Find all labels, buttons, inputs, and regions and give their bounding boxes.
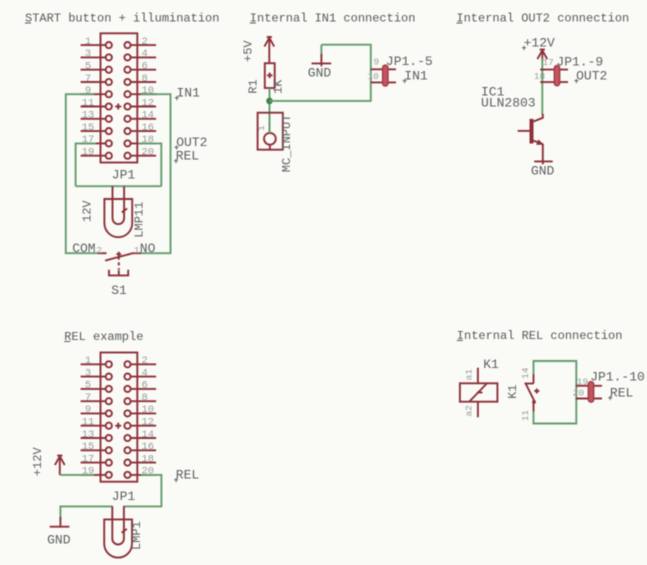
svg-text:9: 9: [373, 57, 379, 68]
wire: JP1 pin 20 (REL) to lamp LMP1: [123, 475, 161, 507]
connector JP1.-9 (pins 17,18): [540, 65, 568, 85]
svg-text:a2: a2: [464, 405, 475, 417]
relay contact K1: [525, 374, 540, 411]
svg-text:1: 1: [85, 355, 91, 367]
svg-text:ULN2803: ULN2803: [481, 95, 536, 110]
supply +12V arrow: [537, 50, 547, 61]
svg-text:14: 14: [520, 367, 531, 379]
svg-text:1: 1: [256, 125, 267, 131]
svg-text:20: 20: [573, 387, 585, 398]
svg-text:4: 4: [142, 367, 148, 379]
svg-text:IN1: IN1: [404, 69, 428, 84]
JP1 pin row 19-20: [81, 147, 157, 159]
svg-text:START button + illumination: START button + illumination: [25, 12, 219, 26]
svg-text:17: 17: [542, 57, 553, 68]
svg-text:16: 16: [142, 441, 155, 453]
svg-text:18: 18: [534, 71, 546, 82]
svg-text:IN1: IN1: [177, 86, 201, 101]
JP1 pin row 1-2: [81, 36, 157, 48]
ground GND (OUT2 section): [534, 161, 553, 164]
svg-text:R1: R1: [246, 79, 260, 93]
svg-text:3: 3: [85, 367, 91, 379]
JP1 (REL example) pin row 11-12: [81, 417, 157, 429]
svg-text:JP1: JP1: [112, 489, 136, 504]
svg-text:1K: 1K: [271, 79, 285, 94]
resistor R1: [265, 63, 275, 88]
junction: [266, 98, 273, 105]
svg-text:Internal OUT2 connection: Internal OUT2 connection: [456, 12, 629, 26]
svg-text:20: 20: [142, 147, 155, 159]
transistor Q1 (ULN2803 driver): [518, 114, 543, 161]
svg-text:14: 14: [142, 110, 155, 122]
wire: lamp top rail: [76, 185, 162, 187]
svg-text:4: 4: [142, 48, 148, 60]
svg-text:14: 14: [142, 429, 155, 441]
svg-text:15: 15: [82, 441, 95, 453]
svg-text:REL example: REL example: [64, 330, 143, 344]
svg-text:2: 2: [142, 355, 148, 367]
wire: +12V to transistor collector: [541, 58, 543, 115]
svg-text:JP1.-5: JP1.-5: [386, 54, 433, 69]
svg-text:6: 6: [142, 380, 148, 392]
svg-text:+5V: +5V: [241, 40, 255, 62]
JP1 (REL example) pin row 19-20: [81, 466, 157, 478]
svg-text:12: 12: [142, 97, 155, 109]
JP1 pin row 9-10: [81, 85, 157, 97]
svg-text:13: 13: [82, 429, 95, 441]
svg-text:9: 9: [85, 404, 91, 416]
JP1 pin row 3-4: [81, 48, 157, 60]
svg-text:11: 11: [82, 97, 95, 109]
svg-text:19: 19: [577, 377, 589, 388]
svg-text:13: 13: [82, 110, 95, 122]
relay coil K1: [460, 368, 498, 418]
svg-text:S1: S1: [111, 283, 127, 298]
connector JP1.-5 (pins 9,10): [371, 65, 396, 86]
wire: JP1 pin 10 (IN1) to S1 NO: [141, 94, 171, 253]
svg-text:NO: NO: [140, 241, 156, 256]
JP1 (REL example) polarity mark: [115, 423, 121, 429]
connector JP1.-10 (pins 19,20): [576, 382, 602, 403]
svg-text:10: 10: [367, 71, 379, 82]
svg-text:GND: GND: [308, 66, 332, 81]
svg-text:+12V: +12V: [31, 447, 45, 477]
svg-text:12V: 12V: [81, 200, 95, 222]
switch S1: [98, 252, 142, 276]
wire: JP1 pin 9 to S1 COM: [66, 94, 98, 253]
svg-text:15: 15: [82, 122, 95, 134]
svg-text:a1: a1: [464, 369, 475, 381]
wire: junction to JP1.-5: [270, 45, 371, 101]
svg-text:7: 7: [85, 392, 91, 404]
svg-text:REL: REL: [176, 149, 199, 164]
svg-text:Internal REL connection: Internal REL connection: [457, 329, 623, 343]
JP1 (REL example) pin row 15-16: [81, 441, 157, 453]
JP1 polarity mark: [115, 104, 121, 110]
svg-text:K1: K1: [483, 357, 499, 372]
svg-text:REL: REL: [610, 386, 633, 401]
svg-text:K1: K1: [506, 384, 520, 398]
svg-text:+12V: +12V: [524, 36, 555, 51]
svg-text:8: 8: [142, 392, 148, 404]
svg-text:GND: GND: [531, 163, 555, 178]
svg-text:18: 18: [142, 453, 155, 465]
svg-text:7: 7: [85, 73, 91, 85]
button MC_INPUT: [258, 113, 283, 150]
svg-text:19: 19: [82, 466, 95, 478]
JP1 pin row 13-14: [81, 110, 157, 122]
JP1 pin row 5-6: [81, 61, 157, 73]
supply +12V arrow (REL example): [55, 456, 65, 475]
JP1 (REL example) pin row 3-4: [81, 367, 157, 379]
svg-text:9: 9: [85, 85, 91, 97]
wire: JP1 pin 18 (OUT2) to lamp: [139, 143, 162, 186]
JP1 (REL example) pin row 17-18: [81, 453, 157, 465]
svg-text:8: 8: [142, 73, 148, 85]
svg-text:LMP11: LMP11: [133, 202, 147, 238]
svg-text:JP1.-9: JP1.-9: [556, 55, 603, 70]
JP1 pin row 15-16: [81, 122, 157, 134]
svg-text:11: 11: [82, 417, 95, 429]
JP1 (REL example) pin row 9-10: [81, 404, 157, 416]
svg-text:JP1: JP1: [112, 168, 136, 183]
wire: JP1 pin 17 to lamp: [76, 143, 96, 186]
svg-text:REL: REL: [176, 468, 199, 483]
svg-text:1: 1: [85, 36, 91, 48]
svg-text:18: 18: [142, 134, 155, 146]
lamp LMP11: [104, 199, 132, 238]
JP1 pin row 17-18: [81, 134, 157, 146]
svg-text:20: 20: [142, 466, 155, 478]
svg-text:10: 10: [142, 404, 155, 416]
wire: GND rail to lamp LMP1: [60, 506, 112, 519]
JP1 pin row 11-12: [81, 97, 157, 109]
svg-text:11: 11: [520, 410, 531, 422]
svg-text:MC_INPUT: MC_INPUT: [280, 115, 294, 173]
svg-text:6: 6: [142, 61, 148, 73]
lamp LMP11 pins: [113, 186, 125, 199]
svg-text:2: 2: [142, 36, 148, 48]
svg-text:17: 17: [82, 134, 95, 146]
connector JP1 (REL example) header body: [101, 353, 138, 482]
lamp LMP1 pins: [112, 506, 124, 520]
svg-text:OUT2: OUT2: [576, 69, 607, 84]
svg-text:JP1.-10: JP1.-10: [590, 370, 645, 385]
connector JP1 header body: [101, 33, 138, 162]
wire: relay contact box: [534, 361, 577, 424]
JP1 (REL example) pin row 5-6: [81, 380, 157, 392]
svg-text:5: 5: [85, 380, 91, 392]
svg-text:LMP1: LMP1: [130, 521, 144, 550]
wire: +12V to JP1 pin 19: [60, 474, 94, 476]
svg-text:17: 17: [82, 453, 95, 465]
svg-text:3: 3: [85, 48, 91, 60]
svg-text:10: 10: [142, 85, 155, 97]
svg-text:2: 2: [96, 245, 102, 256]
ground GND (REL example): [50, 517, 70, 528]
svg-text:Internal IN1 connection: Internal IN1 connection: [250, 12, 416, 26]
JP1 (REL example) pin row 7-8: [81, 392, 157, 404]
svg-text:19: 19: [82, 147, 95, 159]
JP1 (REL example) pin row 13-14: [81, 429, 157, 441]
wire: R1 to MC_INPUT: [269, 88, 271, 133]
svg-text:12: 12: [142, 417, 155, 429]
lamp LMP1: [104, 519, 132, 558]
svg-text:5: 5: [85, 61, 91, 73]
svg-text:GND: GND: [47, 533, 71, 548]
JP1 (REL example) pin row 1-2: [81, 355, 157, 367]
supply +5V arrow: [264, 37, 274, 63]
svg-text:16: 16: [142, 122, 155, 134]
svg-text:COM: COM: [72, 241, 95, 256]
ground GND (IN1 section): [312, 45, 332, 67]
JP1 pin row 7-8: [81, 73, 157, 85]
